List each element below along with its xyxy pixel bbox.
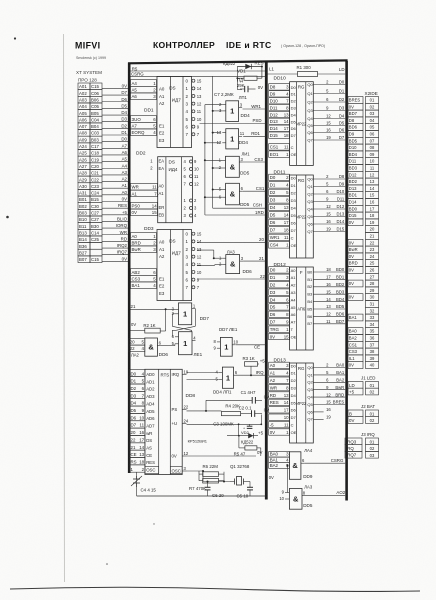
crystal Q1 32768 [230, 464, 250, 485]
decoder DD3 (ИД7) [157, 230, 202, 301]
connector X1 pin table [78, 83, 102, 263]
wire CE net [236, 344, 266, 349]
register DD11 (ИР22) [290, 175, 314, 258]
resistor R2 1K [131, 322, 161, 333]
wire net 22 [197, 274, 266, 279]
wire output stubs of DD11 [307, 174, 345, 234]
connector J3 IRQ [345, 432, 379, 458]
gate DD9 ЛА4 [289, 448, 312, 480]
connector J1 LED [348, 376, 379, 395]
wire net 21 to RS trigger [131, 304, 176, 331]
bus right vertical (thick) [345, 61, 348, 501]
logo MIFVI [75, 41, 106, 61]
wire DD8 IRQ to DD4 [187, 373, 219, 380]
wire input cells of DD10 [269, 84, 297, 158]
wire IRQ net [236, 366, 266, 376]
wire input cells of DD1 [131, 80, 157, 136]
connector X2 IDE [348, 91, 379, 369]
wire PS net with R4 in series [187, 400, 253, 412]
gate 1 [214, 337, 239, 356]
RTC chip DD8 КР512ВИ1 [145, 369, 189, 474]
gate DD6 [219, 249, 252, 274]
wire input cells of DD13 [269, 362, 297, 435]
bus top horizontal (thick) [128, 60, 348, 63]
wire RS cross-coupling [172, 309, 195, 337]
gate DD5 [219, 183, 250, 207]
wire DD6 to ЛЕ1 [161, 344, 175, 346]
wire CS1 net [243, 186, 266, 191]
wire OSC net [137, 471, 203, 496]
gate DD5 ЛА3 lower [279, 485, 345, 510]
gate DD4 [219, 95, 250, 121]
resistor R8 29K [237, 66, 263, 89]
wire BA2 to DD9 inputs [283, 465, 289, 500]
wire CSH net [213, 203, 266, 209]
wire input cells of DD6 lower [129, 339, 145, 352]
wire oscillator mesh [199, 470, 253, 499]
decoder DD1 (ИД7) [157, 77, 202, 148]
title КОНТРОЛЛЕР IDE и RTC [153, 40, 325, 50]
scan speck marks [6, 37, 155, 564]
wire input cells of DD2 [131, 184, 158, 216]
wire output stubs of DD12 [307, 267, 345, 326]
wire 1RD net [205, 210, 266, 215]
resistor R5 47 [234, 436, 263, 457]
connector J2 BAT [348, 404, 379, 423]
diode VD2 КД522 [227, 430, 264, 445]
scan page edge line [10, 587, 420, 591]
wire input cells of DD3 [131, 233, 157, 289]
resistor R7 470K [189, 478, 219, 491]
wire CSRG to bus [304, 458, 345, 463]
decoder DD2 (ИД4) [150, 157, 199, 223]
resistor R4 20K [221, 403, 251, 415]
wire +U net [187, 415, 263, 436]
gate DD5 [219, 152, 251, 178]
register DD12 (АП6) [290, 267, 314, 350]
capacitor C4 4..15 trimmer [131, 476, 156, 493]
resistor R1 300 [267, 65, 345, 77]
gate DD6 [131, 338, 168, 358]
scan page left edge line [64, 34, 65, 582]
wire R5 rail [131, 66, 266, 71]
wire bottom rail 0V [137, 495, 266, 497]
gate DD4 [217, 129, 249, 149]
resistor R3 1K [243, 356, 266, 366]
capacitor C2 0.1 [239, 405, 270, 417]
wire DD3 to DD6 links [197, 250, 222, 265]
diode VD1 КД522 [223, 61, 264, 74]
wire X1 signal stubs to left bus [102, 83, 129, 261]
capacitor C1 4H7 [241, 390, 270, 404]
gate 1 [216, 367, 238, 388]
wire RD1 net [243, 131, 266, 136]
wire CSRG rail [131, 72, 266, 77]
bus center vertical (thick) [265, 62, 268, 500]
wire WR1 net [243, 104, 267, 109]
wire input cells BA0 BA1 BA2 [269, 452, 290, 481]
wire output stubs of DD13 [307, 363, 345, 422]
wire vertical net a [204, 105, 222, 215]
bus left vertical (thick) [128, 63, 131, 474]
wire 0V pin12 net [187, 455, 257, 457]
wire input cells of DD8 [130, 369, 145, 472]
register DD10 (ИР22) [290, 82, 314, 166]
wire PSD net [200, 118, 267, 124]
wire input cells of DD12 [269, 267, 297, 340]
gate DD7 [172, 303, 210, 325]
gate ЛЕ1 [172, 332, 203, 357]
wire net 20 [197, 237, 266, 242]
wire vertical net b [212, 76, 223, 208]
resistor R6 22M [203, 464, 219, 476]
connector X1 heading XT SYSTEM / ПРО 128 [76, 70, 102, 83]
wire output stubs of DD10 [307, 80, 345, 143]
wire net 21 [243, 256, 266, 261]
capacitor C7 2,2МК [214, 85, 263, 97]
wire CS3 net [243, 157, 266, 162]
wire RES vertical link [236, 67, 242, 90]
wire input cells of DD11 [269, 174, 297, 248]
capacitor C3 100МК [213, 422, 252, 431]
register DD13 (ИР22) [290, 363, 314, 443]
